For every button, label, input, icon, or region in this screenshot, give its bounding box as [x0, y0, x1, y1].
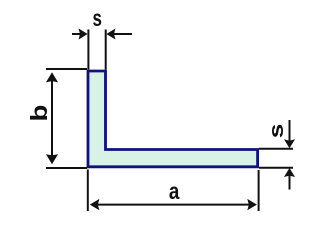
- svg-text:b: b: [27, 105, 53, 122]
- a dimension right arrowhead: [247, 199, 257, 210]
- right s dimension upper line: [289, 120, 291, 142]
- b dimension line: [51, 80, 53, 157]
- svg-text:s: s: [265, 124, 287, 139]
- extension line left of a dimension: [87, 170, 89, 212]
- extension line right of top s dimension: [105, 30, 107, 70]
- top s dimension left arrowhead: [79, 29, 88, 40]
- extension line bottom of b dimension: [46, 167, 87, 169]
- extension line top of b dimension: [46, 68, 87, 70]
- right s dimension lower arrowhead (pointing up): [284, 168, 295, 177]
- L-angle profile cross-section: [88, 71, 258, 167]
- extension line left of top s dimension: [87, 30, 89, 70]
- b dimension bottom arrowhead: [46, 154, 58, 164]
- a dimension left arrowhead: [90, 199, 100, 210]
- extension line right of a dimension: [258, 170, 260, 211]
- svg-text:a: a: [169, 178, 180, 205]
- top s dimension line right segment: [112, 33, 132, 35]
- top s dimension line left segment: [72, 33, 82, 35]
- extension line bottom of right s dimension: [259, 167, 293, 169]
- b dimension top arrowhead: [46, 72, 58, 82]
- top s dimension right arrowhead: [106, 29, 115, 40]
- right s dimension lower line: [289, 174, 291, 190]
- right s dimension upper arrowhead (pointing down): [284, 139, 295, 148]
- svg-text:s: s: [92, 6, 101, 32]
- extension line top of right s dimension: [259, 148, 293, 150]
- a dimension line: [95, 204, 252, 206]
